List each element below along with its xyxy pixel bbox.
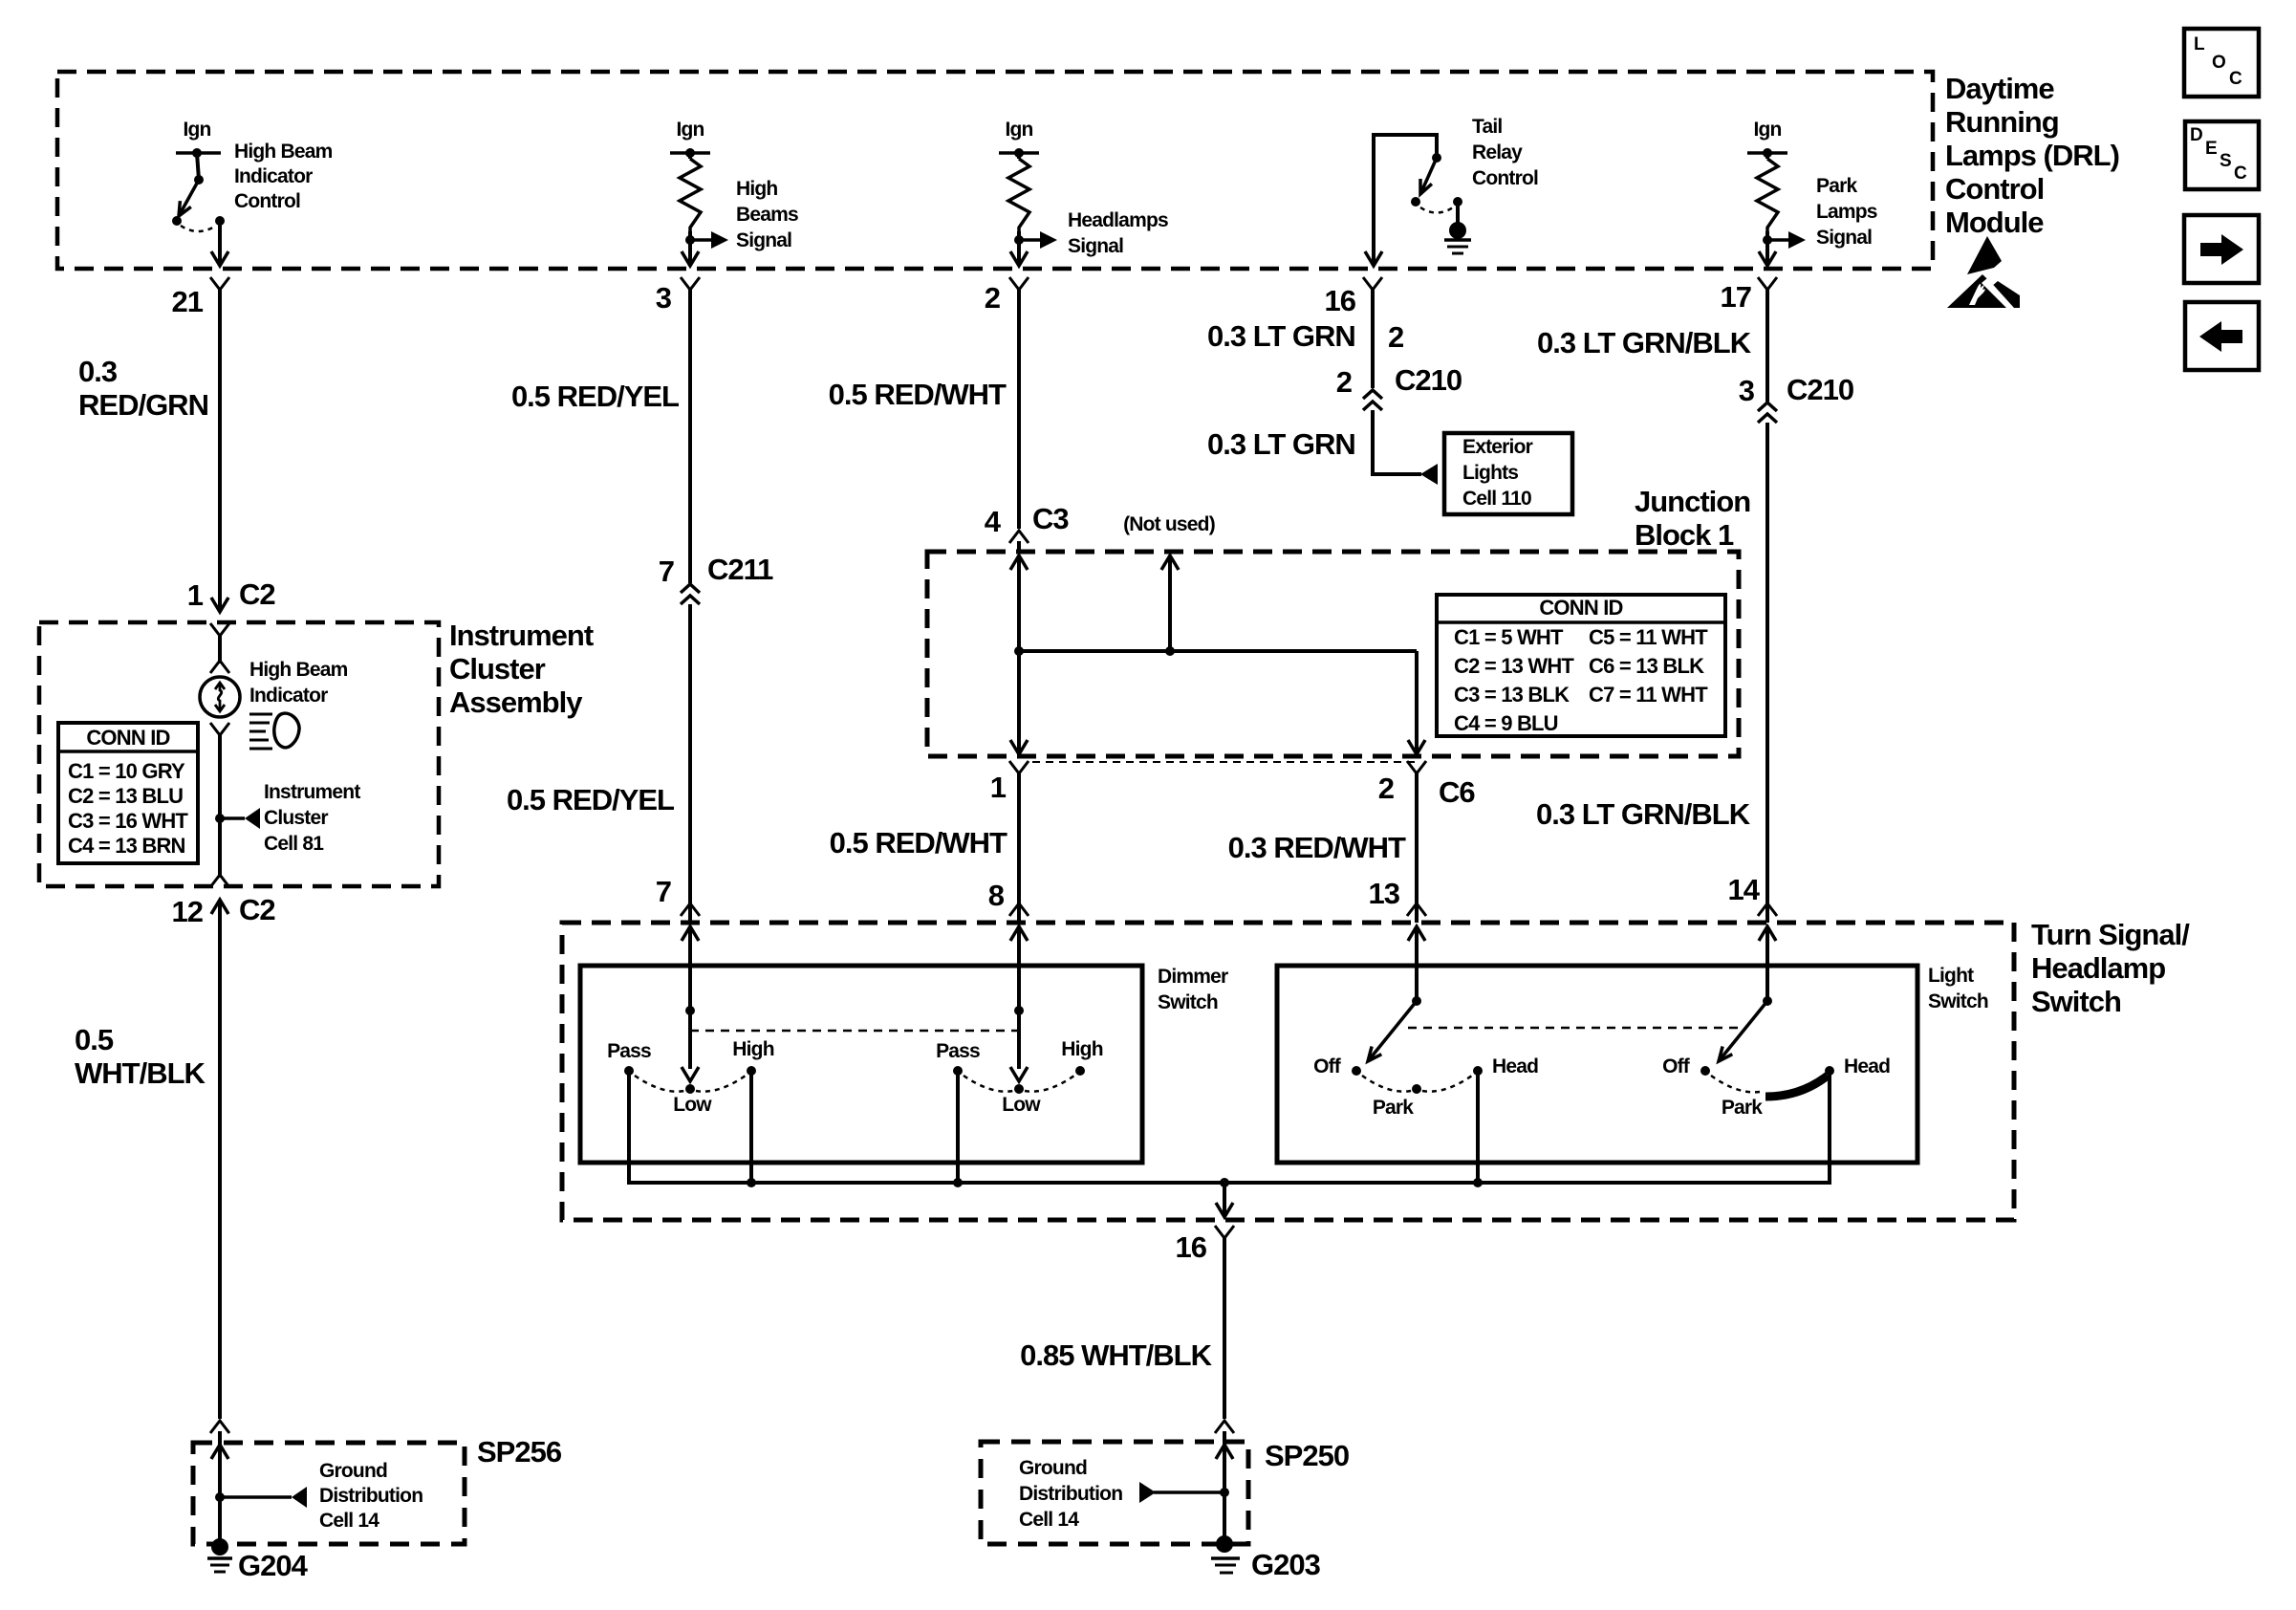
resistor: high beams signal [680,153,701,231]
svg-text:0.85 WHT/BLK: 0.85 WHT/BLK [1020,1338,1212,1372]
Junction Block 1 dashed box [927,552,1739,756]
svg-text:C210: C210 [1395,363,1462,397]
svg-text:Beams: Beams [736,204,798,226]
DRL Control Module label [1945,72,2119,239]
Park label (light 2) [1722,1097,1763,1119]
wire label 0.5 RED/WHT (lower) [830,826,1007,859]
wire: tail relay control loop [1374,135,1437,264]
Instrument Cluster Cell 81 label [264,781,360,855]
Ign stub wire [176,148,221,158]
svg-text:Lamps: Lamps [1816,201,1877,223]
wire label 0.3 LT GRN/BLK (upper) [1537,326,1752,359]
wire: pin 14 into light switch [1759,926,1776,1001]
wire: pin 16 to SP250 [1223,1245,1226,1419]
connector symbol below cluster top [210,623,229,664]
svg-text:High: High [736,178,777,200]
light switch 2 contacts [1700,1066,1834,1092]
svg-text:Block 1: Block 1 [1635,518,1734,552]
svg-text:7: 7 [656,875,671,908]
Turn Signal Headlamp Switch dashed box [562,923,2014,1220]
svg-text:CONN ID: CONN ID [1539,596,1622,620]
pin 2 label [985,281,1000,315]
connector C210 (tail) [1336,363,1462,410]
svg-text:Switch: Switch [2031,985,2121,1018]
svg-text:WHT/BLK: WHT/BLK [75,1056,206,1090]
pin 8 connector [1009,903,1029,923]
wire label 0.3 LT GRN (upper) [1207,319,1403,354]
wire label 0.5 RED/YEL (upper) [511,380,679,413]
svg-text:0.5 RED/YEL: 0.5 RED/YEL [511,380,679,413]
pin 16 label [1325,284,1356,317]
svg-text:High: High [1061,1038,1102,1060]
svg-text:Cell 14: Cell 14 [1019,1509,1079,1531]
svg-text:C6 = 13 BLK: C6 = 13 BLK [1589,654,1704,678]
svg-text:C2: C2 [239,577,275,611]
svg-text:2: 2 [1378,772,1394,805]
svg-text:Switch: Switch [1928,990,1988,1012]
(Not used) label [1123,513,1215,535]
svg-text:Control: Control [1945,172,2044,206]
wire: light head 1 down [1473,1071,1483,1187]
wire: switch output bus [629,1071,1830,1183]
instrument cluster assembly dashed box [39,622,439,886]
svg-text:8: 8 [988,879,1005,912]
svg-text:C: C [2234,163,2247,184]
svg-text:C6: C6 [1439,775,1475,809]
wire: to DRL pin 16 [1365,251,1382,266]
svg-text:4: 4 [985,505,1002,538]
pin 16 (switch) connector [1215,1226,1234,1245]
High Beam Indicator label [249,659,348,707]
connector symbol above indicator [210,661,229,673]
svg-text:C211: C211 [707,553,773,586]
dimmer switch 1 contacts [624,1066,756,1094]
svg-text:Dimmer: Dimmer [1158,966,1228,988]
pin 16 connector [1363,277,1382,296]
svg-text:D: D [2190,125,2202,145]
svg-text:Cluster: Cluster [449,652,546,685]
node: high beams signal branch [685,231,728,266]
pin 16 (switch) label [1176,1230,1207,1264]
pin 14 connector [1758,903,1777,923]
svg-text:Ground: Ground [1019,1457,1087,1479]
pin 3 connector [681,277,700,296]
svg-text:Ign: Ign [1753,119,1781,141]
svg-text:2: 2 [985,281,1000,315]
Headlamps Signal label [1068,209,1168,257]
svg-text:Light: Light [1928,965,1974,987]
svg-text:1: 1 [187,578,204,612]
svg-text:3: 3 [1739,374,1755,407]
svg-text:Head: Head [1492,1055,1538,1077]
pin 17 label [1721,280,1751,314]
svg-text:C4 = 9 BLU: C4 = 9 BLU [1454,711,1558,735]
svg-text:Signal: Signal [736,229,791,251]
Ign label (park lamps) [1753,119,1781,141]
svg-text:16: 16 [1176,1230,1207,1264]
Ground Distribution Cell 14 label (SP256) [319,1460,422,1532]
Instrument Cluster Assembly label [449,619,594,719]
svg-text:Cell 110: Cell 110 [1462,488,1531,510]
pin 17 connector [1758,277,1777,296]
wire label 0.5 RED/YEL (lower) [507,783,674,816]
svg-text:Head: Head [1844,1055,1890,1077]
pin 1 connector [990,761,1029,804]
svg-text:C2 = 13 BLU: C2 = 13 BLU [68,784,183,808]
DESC reference box [2185,121,2259,189]
svg-text:0.3 LT GRN: 0.3 LT GRN [1207,319,1355,353]
svg-text:C1 = 10 GRY: C1 = 10 GRY [68,759,185,783]
svg-text:High: High [732,1038,773,1060]
svg-text:Headlamps: Headlamps [1068,209,1168,231]
wire: cluster to SP256 splice [218,920,222,1419]
svg-text:Distribution: Distribution [1019,1483,1122,1505]
wire: dimmer pass 2 down [953,1071,963,1187]
Ign stub wire 2 [670,148,710,158]
svg-text:C3 = 16 WHT: C3 = 16 WHT [68,809,188,833]
wire: pin 7 into dimmer switch [682,926,699,1011]
svg-text:Turn Signal/: Turn Signal/ [2031,918,2190,951]
wire: C210 to light switch pin 14 [1765,423,1769,920]
svg-text:Indicator: Indicator [249,685,328,707]
Low label (dimmer 2) [1002,1094,1041,1116]
svg-text:21: 21 [172,285,204,318]
resistor: headlamps signal [1008,153,1029,231]
svg-text:Off: Off [1313,1055,1342,1077]
node: light switch wiper 2 pivot [1719,996,1772,1061]
svg-text:C5 = 11 WHT: C5 = 11 WHT [1589,625,1708,649]
wire: junction pin 2 to light switch pin 13 [1415,773,1419,920]
svg-text:Ign: Ign [183,119,210,141]
svg-text:1: 1 [990,771,1007,804]
svg-text:Lights: Lights [1462,462,1518,484]
svg-text:2: 2 [1336,365,1352,399]
node: exterior lights reference [1420,464,1438,485]
pin 21 label [172,285,204,318]
splice entry connector SP250 [1215,1421,1234,1492]
svg-text:Assembly: Assembly [449,685,583,719]
svg-text:S: S [2220,151,2231,171]
svg-text:2: 2 [1388,320,1403,354]
pin 7 connector [681,903,700,923]
svg-text:Off: Off [1662,1055,1691,1077]
G204 label [238,1549,309,1582]
light switch linkage dashed line [1408,1027,1744,1030]
svg-text:13: 13 [1369,877,1400,910]
svg-text:Low: Low [673,1094,712,1116]
svg-text:Signal: Signal [1816,227,1872,249]
Head label (light 2) [1844,1055,1890,1077]
wire: pin 17 to C210 [1765,296,1769,402]
wire: pin 21 to instrument cluster [218,296,222,581]
svg-text:0.5: 0.5 [75,1023,114,1056]
wire label 0.85 WHT/BLK [1020,1338,1212,1372]
LOC reference box [2184,29,2259,97]
node: headlamps signal branch [1014,231,1057,266]
Pass label (dimmer 1) [607,1040,651,1062]
High label (dimmer 2) [1061,1038,1102,1060]
node: dimmer wiper 1 pivot [682,1006,699,1081]
CONN ID table (junction block) [1437,595,1725,736]
svg-text:Cell 81: Cell 81 [264,833,324,855]
svg-text:Park: Park [1816,175,1857,197]
Ign stub wire 3 [999,148,1039,158]
svg-text:0.3 LT GRN/BLK: 0.3 LT GRN/BLK [1536,797,1751,831]
pin 8 label [988,879,1005,912]
svg-text:C7 = 11 WHT: C7 = 11 WHT [1589,683,1708,707]
node: dimmer wiper 2 pivot [1010,1006,1028,1081]
wire: pin 3 to C211 [688,296,692,583]
svg-text:Signal: Signal [1068,235,1123,257]
splice SP250 dashed box [981,1442,1248,1544]
light switch 1 contacts [1352,1066,1483,1094]
SP256 label [477,1435,562,1469]
Head label (light 1) [1492,1055,1538,1077]
svg-text:Junction: Junction [1635,485,1750,518]
svg-text:O: O [2212,53,2225,73]
svg-text:Ground: Ground [319,1460,387,1482]
resistor: park lamps signal [1757,153,1778,231]
svg-text:16: 16 [1325,284,1356,317]
node: ground distribution reference (SP256) [215,1487,307,1508]
wire: pin 2 to C3 [1017,296,1021,529]
Off label (light 2) [1662,1055,1691,1077]
svg-text:0.5 RED/WHT: 0.5 RED/WHT [830,826,1007,859]
pin 13 label [1369,877,1400,910]
connector C210 (park) [1739,373,1853,423]
Exterior Lights Cell 110 box [1444,433,1572,514]
light switch 2 wiper arc (Head position) [1765,1076,1828,1097]
Junction Block 1 label [1635,485,1750,552]
svg-text:SP256: SP256 [477,1435,562,1469]
svg-text:Instrument: Instrument [449,619,594,652]
wire label 0.3 LT GRN/BLK (lower) [1536,797,1751,831]
connector C2 pin 1 arrow [187,577,275,612]
svg-text:G203: G203 [1251,1548,1321,1581]
ground symbol (tail relay) [1444,202,1471,253]
svg-text:Cell 14: Cell 14 [319,1510,379,1532]
pin 13 connector [1407,903,1426,923]
wire: splice to G203 [1223,1492,1226,1538]
left-arrow reference box [2185,302,2259,370]
node: ground distribution reference (SP250) [1139,1482,1229,1503]
svg-text:Cluster: Cluster [264,807,328,829]
wire: pin 8 into dimmer switch [1010,926,1028,1011]
right-arrow reference box [2184,215,2259,283]
svg-text:0.3 RED/WHT: 0.3 RED/WHT [1228,831,1406,864]
svg-text:Control: Control [234,190,300,212]
svg-text:Module: Module [1945,206,2044,239]
Dimmer Switch label [1158,966,1228,1013]
High Beams Signal label [736,178,798,251]
svg-text:14: 14 [1728,873,1761,906]
svg-text:17: 17 [1721,280,1751,314]
wire label 0.5 RED/WHT (upper) [829,378,1007,411]
High Beam Indicator Control label [234,141,333,212]
headlamp icon [249,713,299,749]
node: bus to pin 16 junction [1220,1178,1229,1187]
high beam indicator lamp [200,677,240,717]
svg-text:Indicator: Indicator [234,165,313,187]
light switch box [1277,966,1917,1163]
svg-text:Distribution: Distribution [319,1485,422,1507]
svg-text:0.3 LT GRN/BLK: 0.3 LT GRN/BLK [1537,326,1752,359]
DRL Control Module dashed box [57,72,1933,269]
svg-text:C3: C3 [1032,502,1069,535]
G203 label [1251,1548,1321,1581]
svg-text:3: 3 [656,281,672,315]
svg-text:(Not used): (Not used) [1123,513,1215,535]
svg-text:C2 = 13 WHT: C2 = 13 WHT [1454,654,1574,678]
Low label (dimmer 1) [673,1094,712,1116]
wire: dimmer high 1 down [747,1071,756,1187]
wire label 0.3 RED/GRN [78,355,208,422]
ground G203 [1211,1535,1240,1573]
wire: switch to DRL pin 21 [211,221,228,266]
High label (dimmer 1) [732,1038,773,1060]
wire: pin 16 to C210 [1371,296,1375,388]
dimmer switch linkage dashed line [690,1030,1019,1033]
Turn Signal/Headlamp Switch label [2031,918,2190,1018]
pin 21 connector [210,277,229,296]
svg-text:Ign: Ign [676,119,704,141]
node: instrument cluster cell reference [215,808,260,829]
svg-text:G204: G204 [238,1549,309,1582]
pin 2 connector [1009,277,1029,296]
svg-text:C4 = 13 BRN: C4 = 13 BRN [68,834,185,858]
wire: resistor to DRL pin 3 [682,251,699,266]
svg-text:Ign: Ign [1005,119,1032,141]
pin 2 C6 connector [1378,761,1476,809]
Pass label (dimmer 2) [936,1040,980,1062]
CONN ID table (instrument cluster) [58,723,198,863]
svg-text:Switch: Switch [1158,991,1218,1013]
svg-text:Control: Control [1472,167,1538,189]
wire: dimmer pass 1 down [627,1071,631,1183]
connector pins 1 and 2 dashed link [1032,761,1417,763]
wire: to cluster bottom [218,818,222,878]
pin 7 label [656,875,671,908]
svg-text:SP250: SP250 [1265,1439,1349,1472]
pin 14 label [1728,873,1761,906]
node: junction block junction B [1161,555,1179,656]
connector symbol below indicator [210,723,229,818]
wire label 0.5 WHT/BLK [75,1023,206,1090]
svg-text:C3 = 13 BLK: C3 = 13 BLK [1454,683,1570,707]
svg-text:7: 7 [659,555,674,588]
svg-text:0.5 RED/YEL: 0.5 RED/YEL [507,783,674,816]
node: junction block junction A [1014,646,1417,656]
ground G204 [207,1538,232,1572]
wire: junction block internal right [1408,651,1425,754]
svg-text:Pass: Pass [936,1040,980,1062]
wire: pin 13 into light switch [1408,926,1425,1001]
svg-text:Tail: Tail [1472,116,1502,138]
wire: splice to G204 [218,1497,222,1541]
svg-text:C1 = 5 WHT: C1 = 5 WHT [1454,625,1564,649]
dimmer switch box [580,966,1142,1163]
wire: C210 to exterior lights [1373,410,1421,474]
wire: resistor to DRL pin 17 [1759,251,1776,266]
tail relay control switch [1411,153,1462,213]
svg-text:Park: Park [1373,1097,1414,1119]
svg-text:Park: Park [1722,1097,1763,1119]
svg-text:L: L [2194,34,2205,54]
svg-text:Exterior: Exterior [1462,436,1533,458]
svg-text:Low: Low [1002,1094,1041,1116]
SP250 label [1265,1439,1349,1472]
wire: junction block exit 1 [1010,651,1028,754]
svg-text:High Beam: High Beam [249,659,348,681]
high beam indicator control switch [172,153,225,231]
svg-text:Running: Running [1945,105,2059,139]
wire: bus to pin 16 [1216,1183,1233,1217]
svg-text:C2: C2 [239,893,275,926]
svg-text:E: E [2205,139,2217,159]
svg-text:Headlamp: Headlamp [2031,951,2165,985]
svg-text:CONN ID: CONN ID [86,726,169,750]
wire: resistor to DRL pin 2 [1010,251,1028,266]
Park label (light 1) [1373,1097,1414,1119]
svg-text:High Beam: High Beam [234,141,333,163]
svg-text:0.5 RED/WHT: 0.5 RED/WHT [829,378,1007,411]
node: park lamps signal branch [1763,231,1806,266]
svg-text:RED/GRN: RED/GRN [78,388,208,422]
svg-text:Relay: Relay [1472,141,1523,163]
wire label 0.3 RED/WHT [1228,831,1406,864]
wire label 0.3 LT GRN (lower) [1207,427,1355,461]
Off label (light 1) [1313,1055,1342,1077]
wire: junction block internal left [1010,555,1028,651]
svg-text:12: 12 [172,895,203,928]
Tail Relay Control label [1472,116,1538,189]
Ground Distribution Cell 14 label (SP250) [1019,1457,1122,1531]
node: light switch wiper 1 pivot [1368,996,1421,1061]
wire: C211 to dimmer switch [688,604,692,920]
svg-text:Lamps (DRL): Lamps (DRL) [1945,139,2119,172]
ESD sensitivity symbol [1947,236,2020,308]
svg-text:C210: C210 [1787,373,1853,406]
dimmer switch 2 contacts [953,1066,1085,1094]
svg-text:0.3: 0.3 [78,355,118,388]
connector C3 pin 4 [985,502,1070,552]
Light Switch label [1928,965,1988,1012]
svg-text:Instrument: Instrument [264,781,360,803]
Ign stub wire 4 [1747,148,1787,158]
svg-text:Pass: Pass [607,1040,651,1062]
connector C211 [659,553,773,604]
wire: junction pin 1 to dimmer pin 8 [1017,773,1021,920]
Ign label (headlamps) [1005,119,1032,141]
pin 3 label [656,281,672,315]
Ign label (high beam indicator control) [183,119,210,141]
Park Lamps Signal label [1816,175,1877,249]
splice entry connector SP256 [210,1421,229,1497]
Ign label (high beams) [676,119,704,141]
svg-text:0.3 LT GRN: 0.3 LT GRN [1207,427,1355,461]
svg-text:Daytime: Daytime [1945,72,2054,105]
wire: light head 2 down [1828,1071,1831,1183]
svg-text:C: C [2229,69,2242,89]
connector C2 pin 12 [172,875,275,928]
splice SP256 dashed box [193,1443,465,1544]
